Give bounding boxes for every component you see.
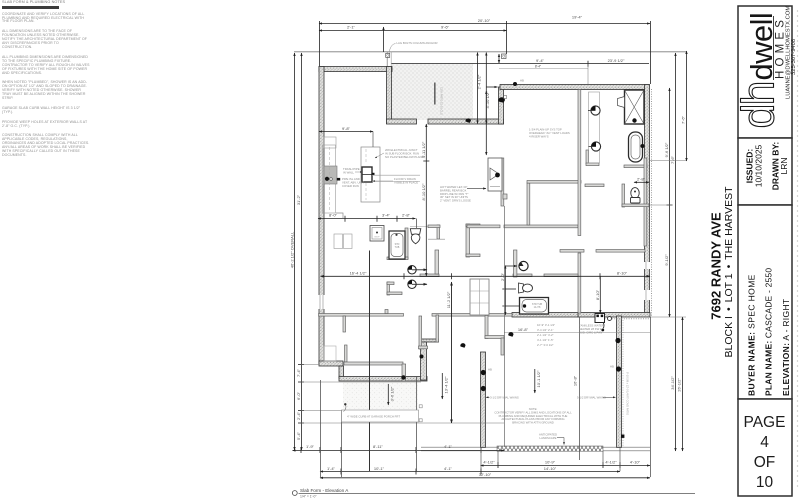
hall toilet [410, 229, 421, 244]
window right wall lower [644, 290, 650, 300]
svg-text:PLAN NAME: CASCADE - 2550: PLAN NAME: CASCADE - 2550 [764, 268, 774, 396]
svg-text:34'-1/2": 34'-1/2" [670, 376, 675, 390]
patio bottom wall right part [428, 119, 504, 124]
svg-text:26'-1/2": 26'-1/2" [677, 378, 682, 392]
page number text [744, 414, 786, 491]
svg-text:3'-6 1/2": 3'-6 1/2" [389, 386, 394, 401]
master wc circle 2 [589, 142, 601, 151]
svg-text:16'-8": 16'-8" [518, 327, 529, 332]
rear patio left wall hose bibbs [481, 370, 486, 375]
svg-text:1/4" = 1'-0": 1/4" = 1'-0" [300, 495, 317, 499]
dim arrow x534 [534, 369, 536, 393]
kitchen counter outline [323, 145, 336, 213]
svg-text:9'-4": 9'-4" [536, 58, 545, 63]
svg-text:4'-1/2": 4'-1/2" [605, 459, 617, 464]
svg-text:9'-8": 9'-8" [342, 126, 351, 131]
patio wall drain blob [465, 118, 471, 123]
svg-text:8'-10 1/2": 8'-10 1/2" [421, 183, 426, 200]
rear-left porch stippled slab [343, 382, 418, 409]
svg-text:HB: HB [520, 79, 524, 83]
hall hose bibb 1 [408, 266, 427, 274]
master bath wall x578 [578, 90, 581, 236]
svg-text:2'-1 1/2" 4'-2": 2'-1 1/2" 4'-2" [537, 333, 554, 337]
rear wall extension x579 [579, 317, 581, 461]
svg-text:14-7/8: 14-7/8 [534, 306, 541, 309]
counter lines to hall [372, 174, 420, 176]
bedroom closet front wall y362 [344, 362, 403, 365]
laundry standpipe box [488, 158, 502, 191]
svg-text:LRN: LRN [779, 157, 789, 174]
garage interior dim y131 [319, 131, 373, 133]
hose bibb top wall [513, 82, 517, 86]
svg-text:10: 10 [756, 474, 774, 491]
black marker at bottom wall right [621, 435, 624, 438]
interior dim y218 [318, 218, 416, 220]
interior vertical dim x451 [451, 282, 453, 423]
svg-text:Slab Form - Elevation A: Slab Form - Elevation A [300, 488, 349, 493]
svg-text:10/10/2025: 10/10/2025 [754, 144, 764, 187]
closet wall x466 [466, 224, 470, 257]
master bath dim y182 [634, 181, 649, 183]
dotted brick ledge right of exterior wall [651, 89, 653, 316]
bedroom closet stub 1 [343, 316, 346, 332]
patio bottom wall [387, 119, 417, 124]
svg-text:32'-10": 32'-10" [479, 472, 492, 477]
tankless water heater [595, 314, 612, 332]
master freestanding tub [629, 132, 645, 162]
svg-text:2'-4": 2'-4" [296, 411, 301, 420]
svg-text:BRACING WITH ATTN GROUND: BRACING WITH ATTN GROUND [512, 421, 554, 425]
interior dim y276 long [321, 275, 651, 277]
svg-text:31'-2": 31'-2" [296, 194, 301, 205]
wall tab above y313 wall [385, 310, 388, 314]
top dim extension x650 [650, 21, 652, 84]
svg-text:HB: HB [610, 365, 614, 369]
svg-text:BLOCK I • LOT 1 • THE HARV: BLOCK I • LOT 1 • THE HARVEST [723, 186, 735, 358]
svg-text:5'-4": 5'-4" [296, 431, 301, 440]
svg-text:7'-6": 7'-6" [670, 155, 675, 164]
utility wall y180 [527, 181, 581, 184]
svg-text:NO PLASTER BELOW PLANE: NO PLASTER BELOW PLANE [385, 155, 424, 159]
svg-text:4'-10": 4'-10" [630, 459, 641, 464]
svg-text:11'-2 1/2": 11'-2 1/2" [446, 291, 451, 308]
dim arrow x388 [387, 384, 389, 405]
lower-left corner wall vertical jog [339, 366, 344, 378]
laundry wall x501 [501, 158, 504, 206]
bedroom closet stub 2 [345, 345, 348, 362]
dotted ledge right of rear patio wall [622, 320, 624, 446]
front slab edge line full width [294, 51, 686, 53]
hall edge line x504 [504, 206, 506, 447]
utility wall x527 [527, 183, 530, 225]
porch column left [386, 53, 390, 57]
svg-text:2'-4 1/2": 2'-4 1/2" [476, 74, 481, 89]
interior dim y332 faint [504, 331, 650, 333]
garage top wall [319, 67, 392, 72]
svg-text:2'-7" 3'-0 1/2": 2'-7" 3'-0 1/2" [537, 343, 554, 347]
title block issued box [738, 138, 792, 205]
porch dim ticks on y63.8 [498, 54, 500, 63]
garage right / patio left wall [387, 67, 392, 124]
interior vertical dim x505 [504, 266, 506, 316]
rear slab edge double line [421, 446, 650, 448]
detail circle [292, 491, 297, 496]
top dim extension x383 [383, 27, 385, 52]
svg-text:COV. PATIO 11'-10 CLG: COV. PATIO 11'-10 CLG [440, 87, 444, 115]
window left wall [319, 295, 325, 309]
landscape timber cross-hatch band [497, 446, 603, 451]
top dim extension x319 [319, 21, 321, 66]
svg-text:14'-10": 14'-10" [544, 466, 557, 471]
patio drain blob [498, 97, 505, 102]
left notes column [2, 1, 90, 164]
svg-text:BUYER NAME: SPEC HOME: BUYER NAME: SPEC HOME [747, 274, 757, 396]
washer dryer boxes [334, 234, 343, 249]
interior vertical dim x426 [425, 124, 427, 276]
left dim ticks [298, 364, 304, 366]
svg-text:9'-6": 9'-6" [441, 24, 450, 29]
hall closet wall upper [387, 282, 390, 295]
svg-text:8'-10": 8'-10" [595, 289, 600, 300]
title block buyer box [738, 205, 792, 399]
note rear patio centered [494, 407, 572, 425]
svg-text:1'-4": 1'-4" [327, 466, 336, 471]
bath2 wall y274 [513, 274, 532, 277]
corner drain at closet wall [420, 355, 424, 359]
logo underline between dwell and HOMES [773, 16, 775, 80]
interior vertical dim x600 [599, 276, 601, 313]
bed3 jog wall lower vertical [501, 338, 504, 355]
right dim line x669 [669, 88, 671, 317]
patio slope mark [434, 83, 435, 105]
svg-text:23'-9 1/2": 23'-9 1/2" [608, 58, 625, 63]
right exterior wall [645, 85, 650, 317]
bed3 jog wall horizontal [485, 336, 504, 339]
bottom closet wall horizontal [421, 339, 439, 342]
title block logo box [738, 6, 792, 138]
svg-text:COVER RUN: COVER RUN [342, 184, 359, 188]
title block page box [738, 399, 792, 496]
interior wall bedrooms top [319, 314, 404, 317]
svg-text:8'-11": 8'-11" [373, 444, 383, 449]
svg-text:2'-0": 2'-0" [500, 272, 505, 281]
svg-text:VISIBLE IN PLACE: VISIBLE IN PLACE [394, 180, 418, 184]
svg-text:325-307-9408: 325-307-9408 [791, 39, 797, 75]
tiny square markers near note box [419, 405, 422, 408]
closet wall x436 bottom [436, 315, 439, 342]
laundry wall y225 [467, 225, 500, 228]
left dim horizontal extensions [301, 364, 319, 366]
front patio stippled slab [392, 64, 473, 120]
hall wall x437 [437, 225, 440, 239]
svg-text:4" WIDE CURB AT GARAGE PORCH F: 4" WIDE CURB AT GARAGE PORCH FRT [347, 414, 400, 418]
svg-text:1'-9": 1'-9" [306, 444, 315, 449]
svg-text:TUB: TUB [395, 246, 400, 249]
hall bathtub [389, 231, 405, 259]
right dim line x686 upper [686, 51, 688, 161]
bed3 closet wall y346 [419, 346, 428, 349]
master wc circle 1 [588, 106, 600, 115]
bottom dim line y471 [320, 471, 620, 473]
kitchen sink drain [325, 177, 329, 181]
svg-text:8'-10": 8'-10" [617, 271, 628, 276]
window gaps in left wall [319, 262, 651, 309]
svg-text:3'-4 1/2" 2'-1": 3'-4 1/2" 2'-1" [537, 328, 554, 332]
svg-text:46'-2 1/2" OVERALL: 46'-2 1/2" OVERALL [289, 231, 294, 268]
rear patio right wall hose bibbs [615, 338, 620, 343]
bath2 toilet [519, 283, 533, 293]
bed3 jog wall vertical [485, 316, 488, 339]
kitchen fridge box [324, 137, 336, 148]
island sink box [362, 167, 372, 182]
dim arrow blob y332 [508, 332, 513, 337]
master shower [618, 90, 645, 124]
svg-text:4'-1/2": 4'-1/2" [483, 459, 495, 464]
svg-text:3-1/2 DRYWAL WAINS: 3-1/2 DRYWAL WAINS [490, 395, 519, 399]
svg-text:16'-4 1/2": 16'-4 1/2" [350, 271, 367, 276]
svg-text:4'-1 1/2" 1'-5": 4'-1 1/2" 1'-5" [537, 338, 554, 342]
hall wall y225 left [428, 225, 440, 228]
top dim line 2 [319, 30, 507, 32]
hall drain near bed2 [460, 343, 465, 348]
svg-text:8'-0": 8'-0" [329, 213, 338, 218]
wc niche walls [622, 184, 625, 207]
bath2 wall x513 [514, 250, 517, 277]
master interior wall x644 [644, 158, 647, 246]
bath2 cabinet [470, 279, 489, 315]
hall bath wall vertical [405, 228, 408, 259]
svg-text:OF: OF [754, 454, 776, 471]
patio vertical dims [477, 53, 479, 124]
svg-text:7'-4": 7'-4" [296, 368, 301, 377]
rear patio right wall [617, 316, 622, 448]
bottom-left closet box [324, 346, 336, 361]
dotted brick ledge below master wall [595, 318, 650, 320]
svg-text:PAGE: PAGE [744, 414, 786, 431]
closet side wall x402 [402, 364, 406, 381]
laundry vertical dim x486 [485, 91, 487, 155]
svg-text:LAG BOLTS COLUMN ANCHOR: LAG BOLTS COLUMN ANCHOR [397, 41, 438, 45]
patio right wall [499, 87, 504, 124]
svg-text:20'-10": 20'-10" [478, 18, 491, 23]
svg-text:8'-4": 8'-4" [535, 65, 541, 69]
hall hose bibb 2 [408, 280, 427, 288]
svg-text:dh: dh [733, 82, 784, 128]
hall bath wall bottom [387, 257, 408, 260]
detail underline [299, 493, 696, 495]
svg-text:16'-8": 16'-8" [572, 375, 577, 386]
master vanity counter [589, 92, 600, 163]
svg-text:9'-1/2": 9'-1/2" [664, 254, 669, 266]
svg-text:7692 RANDY AVE: 7692 RANDY AVE [709, 212, 724, 320]
bottom extensions [320, 380, 322, 477]
svg-text:10'-1 1/2": 10'-1 1/2" [536, 370, 541, 387]
svg-text:4'-10 1/2": 4'-10 1/2" [485, 91, 490, 108]
top dim extension x506 [506, 21, 508, 54]
right dim line x675 [675, 53, 677, 451]
bath2 tub [520, 298, 549, 315]
hall wall y274 [420, 274, 439, 277]
hall wall x435 lower [435, 250, 439, 274]
svg-text:13'-4 1/2": 13'-4 1/2" [443, 376, 448, 393]
svg-text:19'-4": 19'-4" [572, 15, 583, 20]
svg-text:4'-1": 4'-1" [444, 444, 453, 449]
bottom wall left section [339, 377, 427, 382]
svg-text:SUB. CIRC & PAN: SUB. CIRC & PAN [579, 330, 602, 334]
svg-text:LANDSCAPE: LANDSCAPE [540, 436, 557, 440]
svg-text:ELEVATION: A - RIGHT: ELEVATION: A - RIGHT [781, 299, 791, 396]
hall laundry sink [370, 226, 384, 242]
laundry corner tick y87 [486, 86, 497, 88]
right dim horizontal extensions [650, 204, 672, 206]
kitchen island [361, 147, 380, 202]
svg-text:3'-4": 3'-4" [382, 213, 391, 218]
window right wall upper [644, 262, 650, 269]
left dim line inner [301, 53, 303, 450]
toilet corner shelf line [428, 238, 445, 240]
svg-text:10'-9" 3'-1 1/2": 10'-9" 3'-1 1/2" [537, 323, 555, 327]
garage/left exterior wall [319, 67, 324, 364]
svg-text:4 RISER WAYS: 4 RISER WAYS [529, 134, 549, 138]
svg-text:9'-10 5/8 x 12'-0 1/4 RT COVD: 9'-10 5/8 x 12'-0 1/4 RT COVD PATIO [626, 372, 630, 415]
porch side jamb left [386, 52, 388, 67]
svg-text:IN WALL: IN WALL [343, 170, 355, 174]
dim arrow x442 [441, 373, 443, 399]
svg-text:10'-9": 10'-9" [545, 459, 556, 464]
kitchen counter end step [336, 213, 343, 218]
svg-text:5-1/2 DRYWAL WAINS: 5-1/2 DRYWAL WAINS [577, 395, 606, 399]
svg-text:6'-0": 6'-0" [296, 391, 301, 400]
bottom dim line y477 overall [320, 477, 650, 479]
bottom dim line y465 [481, 465, 651, 467]
master suite dividing wall y250 [560, 250, 584, 253]
porch secondary line [499, 68, 588, 70]
bottom wall drain [401, 375, 405, 379]
note curb box [342, 410, 419, 422]
bottom dim line y450 [293, 450, 505, 452]
main top wall right section [500, 85, 649, 90]
svg-text:4'-1": 4'-1" [444, 466, 453, 471]
laundry wall notch [503, 194, 507, 199]
master bedroom bottom wall [578, 313, 650, 318]
svg-text:2'-8": 2'-8" [402, 213, 411, 218]
svg-text:9'-6 1/2": 9'-6 1/2" [664, 142, 669, 157]
master toilet [631, 188, 641, 203]
left dim line outer [294, 53, 296, 450]
svg-text:7'-6": 7'-6" [681, 115, 686, 124]
svg-text:2" VENT. DRN'S LOOSE: 2" VENT. DRN'S LOOSE [440, 199, 471, 203]
tub niche wall [624, 165, 647, 168]
svg-text:MOP: MOP [375, 237, 381, 239]
right edge scan artifact [797, 10, 799, 490]
svg-text:10'-1": 10'-1" [374, 466, 385, 471]
kitchen sink cabinet [324, 166, 337, 184]
bed3 left wall x419 [419, 316, 422, 349]
top dim line 1 [319, 23, 650, 25]
svg-text:4: 4 [760, 434, 769, 451]
svg-text:HB: HB [488, 368, 492, 372]
porch front edge line [391, 63, 649, 65]
master vanity wall pieces [586, 150, 589, 164]
right dim line x682 lower [682, 317, 684, 451]
porch column right [502, 54, 507, 59]
svg-text:2'-1": 2'-1" [347, 24, 356, 29]
middle bottom wall [512, 313, 578, 318]
bottom closet wall vertical [421, 342, 427, 380]
kitchen counter dashed centerline [329, 147, 331, 211]
bath2 sink circle [506, 261, 529, 270]
rear patio left wall [481, 352, 486, 448]
lower-left corner wall horizontal [319, 361, 343, 366]
svg-text:2'-8": 2'-8" [637, 177, 646, 182]
